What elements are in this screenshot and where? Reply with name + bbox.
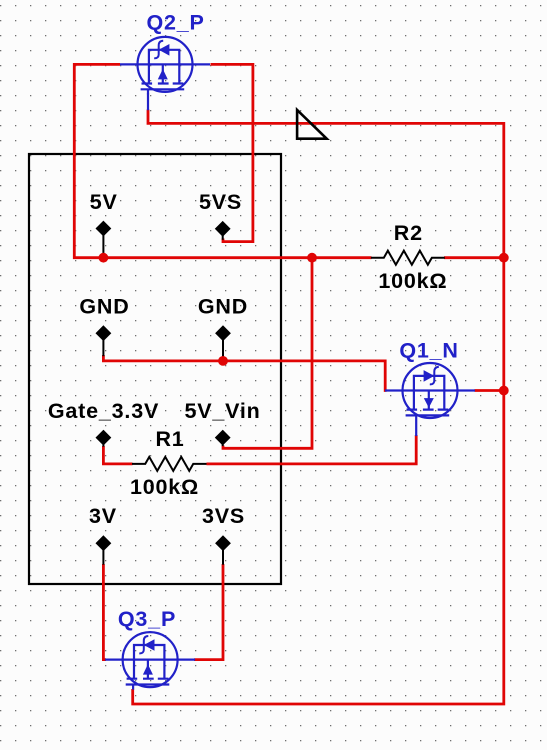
transistor Q1_N — [385, 363, 475, 436]
pin GND left — [96, 326, 110, 356]
wire GND2 stub link — [222, 357, 225, 361]
junction Q1_N drain on gate rail — [499, 386, 509, 396]
resistor R1 — [132, 457, 207, 471]
wire net GND rail to Q1_N source — [103, 355, 386, 391]
svg-text:Q3_P: Q3_P — [118, 607, 176, 631]
pin 3VS — [216, 536, 230, 565]
transistor Q3_P — [105, 632, 195, 690]
pin 3V — [96, 536, 110, 565]
cursor arrow marker — [297, 110, 327, 139]
svg-text:GND: GND — [198, 294, 248, 318]
svg-text:5V: 5V — [90, 190, 118, 214]
junction 5V at 5V_Vin branch — [307, 253, 317, 263]
pin 5VS — [216, 222, 230, 240]
svg-text:R1: R1 — [155, 427, 184, 451]
pin 5V — [96, 221, 110, 255]
svg-text:R2: R2 — [394, 221, 423, 245]
pin GND right — [216, 326, 230, 357]
connector box outline — [29, 154, 281, 584]
wire net Q1_N drain to right rail — [475, 389, 504, 392]
wire net 5V: Q2_P source to 5V pin rail — [74, 64, 371, 257]
wire net 3VS down to Q3_P drain — [194, 564, 223, 660]
svg-text:Gate_3.3V: Gate_3.3V — [48, 399, 159, 423]
wire net 5V_Vin up to 5V rail — [223, 258, 312, 449]
svg-text:GND: GND — [79, 294, 129, 318]
transistor Q2_P — [120, 37, 210, 110]
svg-text:5VS: 5VS — [199, 190, 242, 214]
pin 5V_Vin — [216, 430, 230, 446]
svg-text:Q2_P: Q2_P — [147, 11, 205, 35]
wire net R1 right to Q1_N gate — [207, 435, 417, 464]
svg-text:3V: 3V — [89, 504, 117, 528]
svg-text:5V_Vin: 5V_Vin — [184, 399, 260, 423]
junction 5V at pin stub — [99, 253, 109, 263]
wire net Q2_P gate long route right side down to Q3_P gate — [133, 110, 504, 705]
wire net Gate_3.3V to R1 left — [103, 446, 132, 464]
pin Gate_3.3V — [96, 430, 110, 446]
junction R2 right on gate rail — [499, 253, 509, 263]
wire net 3V down to Q3_P source — [103, 564, 106, 660]
svg-text:100kΩ: 100kΩ — [378, 269, 447, 293]
resistor R2 — [371, 251, 445, 265]
junction GND rail — [218, 356, 228, 366]
wire net R2 right to gate rail — [444, 256, 504, 259]
svg-text:100kΩ: 100kΩ — [130, 475, 199, 499]
wire net 5VS: Q2_P drain down to 5VS pin — [211, 64, 253, 241]
svg-text:3VS: 3VS — [202, 504, 245, 528]
svg-text:Q1_N: Q1_N — [399, 338, 458, 362]
